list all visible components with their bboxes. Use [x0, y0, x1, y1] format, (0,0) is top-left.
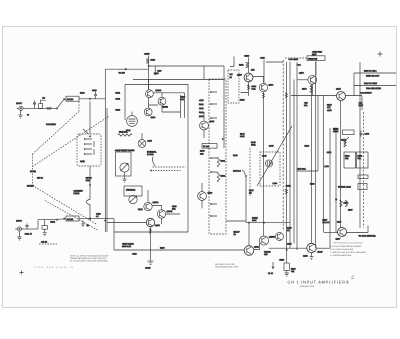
wire attenuator A output	[79, 98, 105, 100]
wire meter	[286, 250, 288, 273]
junction dot	[89, 135, 91, 137]
svg-text:DC BAL: DC BAL	[147, 153, 154, 156]
pointer to dot	[242, 170, 245, 175]
svg-text:+225V: +225V	[144, 53, 150, 56]
svg-text:(CONCEPT S/N): (CONCEPT S/N)	[300, 285, 315, 288]
svg-text:SEMICONDUCTOR TYPES: SEMICONDUCTOR TYPES	[215, 265, 239, 268]
wire stub up	[248, 223, 250, 246]
rail x324	[322, 96, 324, 233]
dashed rail x363	[363, 112, 365, 228]
svg-text:SEL: SEL	[358, 157, 362, 160]
svg-text:47: 47	[27, 113, 29, 116]
svg-text:+CC +DEC: +CC +DEC	[289, 58, 299, 61]
svg-text:C149: C149	[273, 182, 278, 185]
wire riser to attenuator A	[52, 99, 66, 108]
wire link y62	[266, 61, 283, 63]
variable box	[124, 186, 142, 196]
attenuator block A	[66, 96, 79, 101]
svg-text:R168: R168	[305, 145, 310, 148]
wire from dot down	[246, 177, 290, 223]
svg-text:R187: R187	[348, 208, 353, 211]
svg-text:Q143: Q143	[210, 120, 215, 123]
capacitor C103	[92, 89, 97, 99]
svg-text:R141: R141	[199, 103, 204, 106]
svg-text:4.7: 4.7	[96, 215, 99, 218]
riser input B	[37, 220, 39, 229]
wire supply drop A	[248, 58, 250, 74]
wire drop x362	[361, 96, 363, 111]
svg-text:100K: 100K	[252, 219, 257, 222]
capacitor C key	[87, 200, 90, 205]
switch contacts column	[210, 91, 217, 216]
wire Q133B emitter	[162, 105, 181, 112]
junction dot y222 x264	[263, 222, 265, 224]
resistor under Q155	[150, 229, 152, 234]
svg-text:SW 1C: SW 1C	[86, 176, 93, 179]
wire Q143 stub	[203, 112, 205, 138]
svg-text:R147: R147	[269, 145, 274, 148]
resistor on rail2 lower	[285, 189, 287, 194]
SEC-BOTTOM-TEXT	[34, 242, 366, 288]
output box 2	[357, 152, 369, 168]
wire supply drop B	[263, 60, 265, 84]
svg-text:-12.2V: -12.2V	[145, 267, 151, 270]
svg-text:R136: R136	[181, 95, 186, 98]
svg-text:B167: B167	[148, 139, 152, 142]
resistor R110 in switch	[93, 141, 95, 155]
transistor Q154B	[157, 210, 165, 218]
test point arrow	[268, 262, 274, 275]
meter resistor box	[284, 263, 289, 270]
svg-text:R183: R183	[287, 226, 292, 229]
connector J201	[15, 227, 23, 231]
signal out arrow 2	[354, 82, 396, 90]
svg-text:TRIG AMPLIFIER: TRIG AMPLIFIER	[366, 87, 382, 90]
svg-text:R159 2.7K: R159 2.7K	[122, 245, 132, 248]
ground at input B	[17, 231, 21, 240]
wire input A	[26, 107, 53, 109]
dashed feed to label box	[285, 57, 307, 59]
svg-text:180K: 180K	[199, 115, 204, 118]
attenuator block B	[66, 216, 79, 221]
svg-text:SPECIAL MOD: SPECIAL MOD	[338, 186, 351, 189]
transistor Q134	[144, 108, 152, 116]
wire out line mid	[291, 95, 362, 97]
wire Q177 out	[347, 226, 369, 233]
svg-text:Q164: Q164	[269, 84, 274, 87]
transistor Q155	[146, 218, 154, 226]
lamp B167	[138, 140, 146, 148]
junction dot attenA	[89, 98, 91, 100]
svg-text:R135: R135	[154, 72, 159, 75]
ground pot	[122, 176, 126, 182]
svg-text:INPUT: INPUT	[16, 102, 23, 105]
svg-text:Q174: Q174	[336, 88, 341, 91]
svg-text:750K: 750K	[334, 130, 339, 133]
svg-text:③ VERTICAL SW. & OUTPUT AMPLIF: ③ VERTICAL SW. & OUTPUT AMPLIFIER	[330, 251, 366, 254]
supply rail 2	[285, 62, 287, 250]
svg-text:C183: C183	[287, 242, 292, 245]
svg-text:R144: R144	[240, 132, 245, 135]
wire Q173 base	[297, 79, 308, 81]
pointer zero adj	[345, 137, 349, 144]
svg-text:Q155: Q155	[155, 224, 160, 227]
registration mark top right	[378, 52, 383, 57]
fet Q147	[265, 160, 272, 167]
svg-text:AT .05 AND INPUT COUPLING GROU: AT .05 AND INPUT COUPLING GROUNDED	[70, 259, 109, 262]
supply wire upper	[149, 65, 224, 67]
svg-text:+CC: +CC	[297, 63, 301, 66]
svg-text:R169: R169	[310, 182, 315, 185]
wire Q163 emitter	[241, 82, 249, 96]
resistor on rail2 upper	[285, 93, 287, 98]
svg-text:R133: R133	[151, 58, 156, 61]
supply wire top	[105, 68, 148, 70]
dashed link right 2	[153, 170, 181, 172]
svg-text:R142: R142	[199, 111, 204, 114]
svg-text:Q154B: Q154B	[167, 210, 174, 213]
rail x311	[311, 62, 313, 243]
transistor Q142	[244, 246, 254, 256]
svg-text:R132: R132	[116, 108, 121, 111]
svg-text:R160: R160	[160, 247, 165, 250]
svg-text:R143: R143	[200, 150, 205, 153]
svg-text:L179: L179	[337, 220, 341, 223]
svg-text:R177: R177	[359, 104, 364, 107]
ground meter	[285, 273, 289, 276]
svg-text:Q163: Q163	[237, 74, 242, 77]
ground main	[148, 261, 154, 264]
svg-text:R202: R202	[50, 221, 55, 224]
svg-text:3A3: 3A3	[351, 277, 354, 280]
rail x336	[335, 130, 337, 233]
transistor Q183	[307, 243, 316, 252]
resistor R101	[47, 107, 52, 109]
linkage diagonal upper second	[33, 117, 109, 167]
ground at input A	[18, 111, 22, 119]
wire Q154B emitter	[162, 214, 181, 224]
inner shield line	[180, 95, 182, 118]
wire +225 drop	[148, 56, 150, 90]
svg-text:+DEC: +DEC	[244, 55, 250, 58]
svg-text:C201 47: C201 47	[25, 232, 32, 235]
svg-text:② CH 2 INPUT AMPLIFIER: ② CH 2 INPUT AMPLIFIER	[330, 248, 354, 251]
wire box drop	[315, 61, 317, 76]
rail x341	[340, 101, 342, 228]
svg-text:① A & B ATTENUATOR NETWORKS: ① A & B ATTENUATOR NETWORKS	[330, 245, 362, 248]
wire Q153 stub	[201, 183, 203, 208]
linkage diagonal lower second	[45, 201, 98, 231]
svg-text:Q153: Q153	[208, 192, 213, 195]
MAIN SCHEMATIC INK	[15, 51, 396, 276]
svg-text:R185: R185	[323, 218, 328, 221]
transistor Q173	[308, 75, 317, 84]
switch wiper S1	[83, 129, 88, 134]
svg-text:Q133A: Q133A	[155, 89, 162, 92]
transistor Q133B	[158, 97, 166, 105]
transistor Q133A	[146, 90, 154, 98]
wire out riser	[353, 73, 355, 96]
wire pot wiper	[124, 172, 126, 176]
wire Q163-Q164	[253, 77, 264, 84]
supply rail 3	[289, 62, 291, 248]
svg-text:R149A: R149A	[252, 216, 259, 219]
svg-text:R148: R148	[249, 189, 254, 192]
dashed link right	[153, 166, 186, 168]
wire linkage drop B	[89, 166, 91, 218]
wire Q154A-Q154B	[152, 206, 161, 210]
registration mark bottom left	[20, 271, 24, 275]
rail x317	[317, 96, 319, 172]
supply rail 4	[293, 80, 295, 244]
wire Q164 emitter	[263, 92, 265, 237]
net label box right	[307, 56, 325, 61]
svg-text:NORM: NORM	[30, 170, 36, 173]
zero adj box	[343, 130, 355, 135]
svg-text:L175 0.3A: L175 0.3A	[297, 168, 306, 171]
svg-text:④ TRIGGER AMPLIFIER: ④ TRIGGER AMPLIFIER	[330, 254, 352, 257]
switch SW201 coupling	[42, 220, 47, 230]
resistor R162	[217, 172, 225, 182]
svg-text:C147: C147	[262, 154, 267, 157]
svg-text:SEE PARTS LIST FOR: SEE PARTS LIST FOR	[215, 263, 235, 266]
small box A	[358, 175, 368, 179]
svg-text:COMPONENT BOARD: COMPONENT BOARD	[115, 149, 135, 152]
svg-text:SEL: SEL	[291, 270, 295, 273]
svg-text:+CC SUPPLY: +CC SUPPLY	[360, 91, 372, 94]
bus drop x224	[223, 66, 225, 148]
linkage diagonal lower	[33, 186, 98, 225]
svg-text:R182: R182	[358, 154, 363, 157]
contact dot line B	[89, 218, 91, 220]
svg-text:Q154A: Q154A	[153, 201, 160, 204]
svg-text:R174: R174	[302, 88, 307, 91]
shield box left	[124, 85, 126, 121]
svg-text:CH 1 INPUT AMPLIFIER①: CH 1 INPUT AMPLIFIER①	[288, 280, 350, 285]
wire Q155 base	[107, 222, 146, 224]
switch box S1	[77, 134, 101, 166]
resistor R133	[147, 58, 156, 63]
resistor R123	[118, 130, 132, 136]
contact circles B	[56, 219, 57, 220]
wire Q133A-Q133B	[149, 93, 185, 118]
svg-text:L176: L176	[325, 165, 329, 168]
long diagonal wire	[257, 126, 292, 186]
resistor R171	[239, 62, 249, 68]
svg-text:C178: C178	[365, 133, 370, 136]
svg-text:R191 TO CH 2: R191 TO CH 2	[364, 70, 376, 73]
signal out arrow 1	[354, 70, 396, 78]
svg-text:R163: R163	[240, 98, 245, 101]
svg-text:REFERENCE DIAGRAMS: REFERENCE DIAGRAMS	[334, 242, 364, 245]
pot box	[116, 152, 132, 176]
svg-text:FROM SW: FROM SW	[308, 58, 317, 61]
pot R125	[129, 195, 137, 203]
svg-text:R146: R146	[233, 154, 238, 157]
pot R116	[120, 163, 129, 172]
signal rail A	[104, 69, 106, 232]
arrow on supply wire	[124, 68, 127, 70]
wire pair join	[254, 243, 260, 250]
ground stub under line B	[81, 220, 89, 227]
transistor Q154A	[144, 202, 152, 210]
svg-text:R192 TO VERT: R192 TO VERT	[364, 82, 378, 85]
svg-text:Q133B: Q133B	[162, 106, 169, 109]
transistor Q153	[198, 192, 207, 201]
long wire y250 left	[114, 249, 244, 251]
svg-text:VERT SIG OUT: VERT SIG OUT	[366, 74, 380, 77]
transistor Q164	[259, 83, 267, 91]
svg-text:TP 143: TP 143	[203, 145, 209, 148]
net label box	[202, 144, 217, 149]
rail x315	[315, 62, 317, 248]
wire bus drop to switch box	[203, 66, 205, 79]
dashed cal line	[39, 243, 57, 245]
rail x330	[329, 128, 331, 248]
linkage diagonal upper	[33, 112, 80, 155]
transistor Q177	[338, 228, 347, 237]
wire switch out	[226, 220, 246, 222]
svg-text:BAL: BAL	[304, 104, 308, 107]
svg-text:C152: C152	[96, 212, 101, 215]
junction dot meter	[286, 249, 288, 251]
svg-text:TYPE 3A3 PLUG-IN: TYPE 3A3 PLUG-IN	[34, 266, 74, 269]
signal rail B	[106, 108, 108, 232]
resistor R187	[345, 200, 352, 211]
svg-text:C176: C176	[327, 151, 332, 154]
svg-text:R123 10K: R123 10K	[119, 130, 128, 133]
wire to attenuator B	[38, 219, 56, 221]
wire attenuator B output	[79, 218, 114, 220]
svg-text:R167: R167	[312, 53, 317, 56]
left rail x297	[296, 62, 298, 250]
resistor under Q164	[263, 93, 265, 98]
capacitor C201	[26, 224, 29, 230]
svg-text:R145: R145	[251, 141, 256, 144]
svg-text:Q142: Q142	[254, 246, 259, 249]
svg-text:DRIVE: DRIVE	[74, 192, 81, 195]
small stub group	[310, 253, 314, 260]
transistor Q174	[337, 92, 346, 101]
wire lamp top	[141, 133, 143, 140]
svg-text:INVERT: INVERT	[27, 184, 35, 187]
shield box	[114, 85, 188, 233]
svg-text:Q173: Q173	[299, 72, 304, 75]
linkage vertical	[32, 154, 34, 186]
svg-text:R131: R131	[116, 91, 121, 94]
svg-text:R162: R162	[221, 175, 226, 178]
wire Q183 right	[316, 247, 330, 249]
svg-text:TRACE: TRACE	[264, 250, 271, 253]
svg-text:1M: 1M	[249, 192, 252, 195]
svg-text:R210: R210	[86, 179, 91, 182]
resistor R186	[340, 200, 348, 207]
svg-text:SW: SW	[230, 73, 233, 76]
svg-text:VARIABLE: VARIABLE	[126, 188, 136, 191]
svg-text:R198: R198	[291, 267, 296, 270]
svg-text:Q153B: Q153B	[269, 236, 276, 239]
transistor Q163	[244, 73, 253, 82]
svg-text:CAL IN: CAL IN	[41, 241, 48, 244]
svg-text:R161: R161	[221, 160, 226, 163]
stub 175V	[154, 66, 156, 75]
wire lower long right	[269, 247, 307, 249]
svg-text:+DEC: +DEC	[279, 258, 285, 261]
svg-text:RELAY: RELAY	[234, 230, 241, 233]
volts/div switch dashed box	[209, 79, 226, 234]
svg-text:+175: +175	[157, 69, 161, 72]
wire Q155 drop	[150, 227, 152, 261]
svg-text:-DEC: -DEC	[260, 57, 265, 60]
junction dot input B rail	[104, 220, 106, 222]
wire lower cluster rail	[147, 190, 149, 202]
svg-text:R152: R152	[138, 208, 143, 211]
bus wire y80	[133, 79, 224, 81]
wire Q177 left	[324, 232, 338, 234]
svg-text:R176: R176	[341, 139, 346, 142]
svg-text:TO CH 2 VERTICAL: TO CH 2 VERTICAL	[359, 234, 376, 237]
junction dot supply	[148, 65, 150, 67]
wire input B	[24, 228, 38, 230]
resistor R164 zigzag	[248, 85, 250, 90]
svg-text:R103: R103	[80, 92, 85, 95]
svg-text:R156: R156	[172, 205, 177, 208]
connector J101	[17, 106, 26, 110]
coupling dashed box	[228, 70, 239, 103]
svg-text:Q177: Q177	[336, 238, 341, 241]
svg-text:BAL DC: BAL DC	[323, 221, 330, 224]
transistor Q143	[200, 121, 209, 130]
svg-text:-DEC: -DEC	[132, 252, 137, 255]
linkage dashed riser at attenuator A	[78, 102, 80, 112]
svg-text:C145 2.2: C145 2.2	[233, 170, 241, 173]
ground under SW201	[43, 229, 47, 236]
junction dot x222	[222, 138, 224, 140]
wire rail B drop	[113, 219, 115, 250]
junction dot y222 x249	[248, 222, 250, 224]
fet dashed box	[260, 152, 280, 186]
junction dot mid	[245, 175, 247, 177]
resistor R174	[302, 86, 312, 93]
svg-text:GAIN: GAIN	[80, 160, 85, 163]
svg-text:SEL: SEL	[345, 157, 349, 160]
output box 1	[344, 152, 356, 168]
svg-text:SW 1A: SW 1A	[37, 176, 44, 179]
transistor Q143B	[259, 236, 268, 245]
tube V123	[127, 112, 138, 127]
svg-text:Q183: Q183	[303, 255, 308, 258]
svg-text:+DEC VOLTS: +DEC VOLTS	[122, 242, 134, 245]
svg-text:330K: 330K	[240, 135, 245, 138]
capacitor C101	[33, 101, 36, 109]
svg-text:C131: C131	[116, 97, 121, 100]
svg-text:C141: C141	[199, 107, 204, 110]
svg-text:INTERNAL: INTERNAL	[147, 151, 156, 154]
switch contacts S1	[84, 138, 92, 154]
svg-text:VOLTS/DIV: VOLTS/DIV	[46, 123, 56, 126]
svg-text:K1: K1	[234, 233, 236, 236]
current loop wire	[297, 170, 319, 172]
wire top bus stub	[230, 57, 234, 67]
wire Q133A collector	[148, 80, 150, 108]
svg-text:C175: C175	[327, 109, 332, 112]
resistor R178	[344, 141, 346, 147]
svg-text:TP 47: TP 47	[268, 272, 273, 275]
supply rail 1 dashed	[282, 60, 284, 230]
relay coil K1	[276, 233, 284, 241]
svg-text:R164: R164	[252, 85, 257, 88]
rail x360	[359, 62, 361, 228]
